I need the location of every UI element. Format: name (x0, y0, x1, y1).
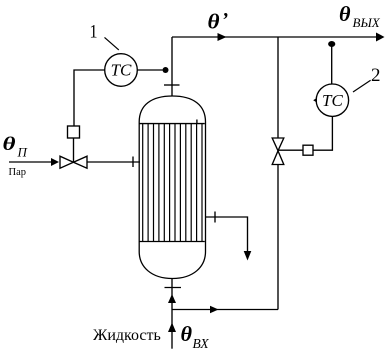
svg-text:TC: TC (111, 61, 132, 80)
svg-text:Жидкость: Жидкость (93, 327, 161, 344)
svg-text:Пар: Пар (9, 167, 27, 178)
svg-text:ВХ: ВХ (193, 336, 210, 351)
svg-text:θ: θ (339, 2, 351, 26)
svg-text:1: 1 (90, 22, 98, 43)
svg-text:2: 2 (371, 65, 381, 86)
svg-text:’: ’ (222, 9, 229, 31)
svg-text:θ: θ (181, 322, 193, 346)
svg-text:θ: θ (3, 134, 16, 155)
svg-text:ВЫХ: ВЫХ (353, 15, 381, 30)
svg-text:П: П (17, 145, 29, 160)
svg-text:θ: θ (208, 10, 220, 34)
svg-text:TC: TC (322, 91, 343, 110)
